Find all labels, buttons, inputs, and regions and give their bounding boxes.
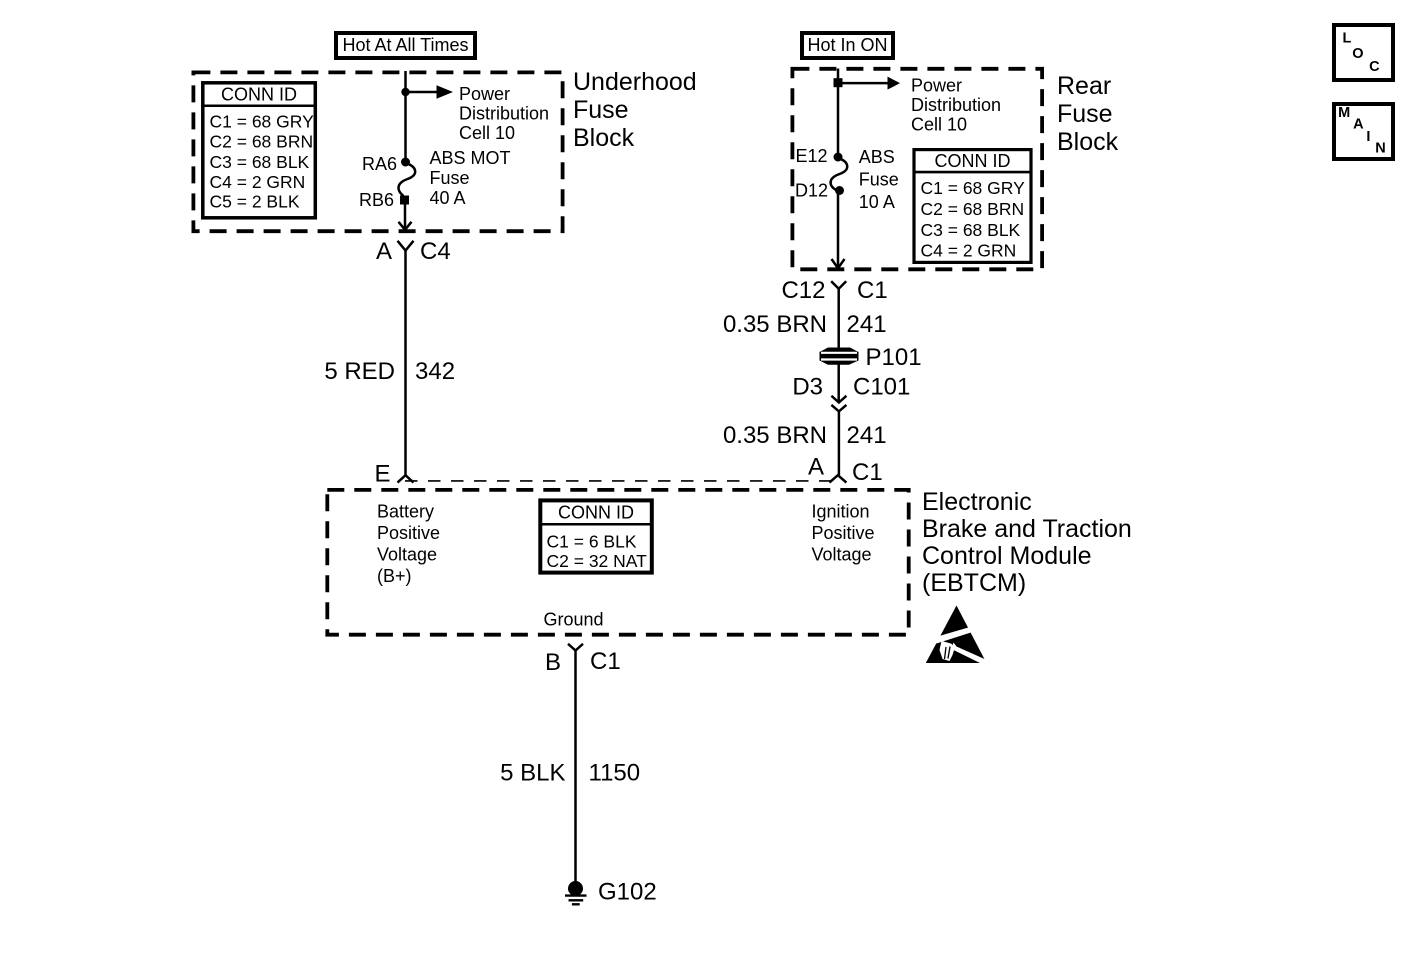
svg-text:RB6: RB6 bbox=[359, 190, 394, 210]
svg-text:Battery: Battery bbox=[377, 502, 434, 522]
svg-text:C12: C12 bbox=[781, 277, 825, 304]
svg-text:CONN ID: CONN ID bbox=[221, 85, 297, 105]
svg-text:L: L bbox=[1343, 31, 1352, 47]
svg-text:C4 = 2 GRN: C4 = 2 GRN bbox=[210, 172, 306, 192]
svg-text:Power: Power bbox=[911, 76, 962, 96]
svg-text:Cell 10: Cell 10 bbox=[911, 115, 967, 135]
svg-text:C1 = 68 GRY: C1 = 68 GRY bbox=[210, 112, 315, 132]
svg-text:0.35 BRN: 0.35 BRN bbox=[723, 422, 827, 449]
svg-text:D12: D12 bbox=[795, 180, 828, 200]
svg-text:C2 = 68 BRN: C2 = 68 BRN bbox=[921, 199, 1025, 219]
svg-text:C3 = 68 BLK: C3 = 68 BLK bbox=[921, 220, 1021, 240]
svg-text:C1 = 6 BLK: C1 = 6 BLK bbox=[547, 532, 637, 552]
svg-text:(B+): (B+) bbox=[377, 566, 412, 586]
svg-text:C2 = 32 NAT: C2 = 32 NAT bbox=[547, 551, 648, 571]
svg-text:A: A bbox=[808, 454, 824, 481]
svg-text:Distribution: Distribution bbox=[911, 95, 1001, 115]
svg-text:Cell 10: Cell 10 bbox=[459, 123, 515, 143]
svg-text:M: M bbox=[1338, 105, 1350, 121]
svg-text:Voltage: Voltage bbox=[812, 545, 872, 565]
svg-text:Positive: Positive bbox=[377, 523, 440, 543]
svg-text:342: 342 bbox=[415, 358, 455, 385]
svg-text:Power: Power bbox=[459, 84, 510, 104]
svg-text:ABS MOT: ABS MOT bbox=[430, 148, 511, 168]
svg-text:C3 = 68 BLK: C3 = 68 BLK bbox=[210, 152, 310, 172]
svg-text:CONN ID: CONN ID bbox=[935, 151, 1011, 171]
svg-text:241: 241 bbox=[847, 422, 887, 449]
svg-text:Block: Block bbox=[573, 124, 635, 152]
svg-text:O: O bbox=[1352, 46, 1363, 62]
svg-text:C1: C1 bbox=[590, 648, 621, 675]
svg-text:I: I bbox=[1366, 129, 1370, 145]
svg-text:Positive: Positive bbox=[812, 523, 875, 543]
svg-text:Electronic: Electronic bbox=[922, 488, 1032, 516]
svg-text:40 A: 40 A bbox=[430, 188, 466, 208]
svg-text:E12: E12 bbox=[795, 146, 827, 166]
svg-text:B: B bbox=[545, 649, 561, 676]
svg-text:N: N bbox=[1375, 141, 1385, 157]
svg-text:Hot In ON: Hot In ON bbox=[807, 35, 887, 55]
svg-text:Ignition: Ignition bbox=[812, 502, 870, 522]
svg-text:Block: Block bbox=[1057, 128, 1119, 156]
svg-text:C1: C1 bbox=[857, 277, 888, 304]
svg-text:C: C bbox=[1369, 59, 1380, 75]
svg-text:D3: D3 bbox=[792, 374, 823, 401]
svg-text:C101: C101 bbox=[853, 374, 910, 401]
svg-text:Underhood: Underhood bbox=[573, 68, 697, 96]
svg-text:10 A: 10 A bbox=[859, 192, 895, 212]
svg-text:(EBTCM): (EBTCM) bbox=[922, 569, 1026, 597]
svg-text:Ground: Ground bbox=[544, 610, 604, 630]
svg-text:C1: C1 bbox=[852, 459, 883, 486]
svg-text:Distribution: Distribution bbox=[459, 104, 549, 124]
svg-text:RA6: RA6 bbox=[362, 154, 397, 174]
svg-text:P101: P101 bbox=[866, 344, 922, 371]
svg-text:Fuse: Fuse bbox=[1057, 100, 1113, 128]
svg-text:241: 241 bbox=[847, 311, 887, 338]
svg-text:5 BLK: 5 BLK bbox=[500, 760, 565, 787]
svg-text:5 RED: 5 RED bbox=[324, 358, 395, 385]
svg-text:ABS: ABS bbox=[859, 147, 895, 167]
svg-text:Brake and Traction: Brake and Traction bbox=[922, 515, 1132, 543]
svg-text:C2 = 68 BRN: C2 = 68 BRN bbox=[210, 132, 314, 152]
svg-text:C4 = 2 GRN: C4 = 2 GRN bbox=[921, 241, 1017, 261]
svg-text:A: A bbox=[376, 238, 392, 265]
svg-text:Rear: Rear bbox=[1057, 72, 1111, 100]
svg-text:Voltage: Voltage bbox=[377, 545, 437, 565]
svg-text:0.35 BRN: 0.35 BRN bbox=[723, 311, 827, 338]
svg-text:CONN ID: CONN ID bbox=[558, 503, 634, 523]
svg-text:C4: C4 bbox=[420, 238, 451, 265]
svg-text:Fuse: Fuse bbox=[430, 168, 470, 188]
svg-text:G102: G102 bbox=[598, 879, 657, 906]
svg-text:1150: 1150 bbox=[589, 760, 641, 787]
svg-text:Fuse: Fuse bbox=[573, 96, 629, 124]
svg-text:C1 = 68 GRY: C1 = 68 GRY bbox=[921, 178, 1026, 198]
svg-text:E: E bbox=[374, 461, 390, 488]
svg-text:Hot At All Times: Hot At All Times bbox=[342, 35, 468, 55]
svg-text:C5 = 2 BLK: C5 = 2 BLK bbox=[210, 191, 300, 211]
svg-text:Fuse: Fuse bbox=[859, 170, 899, 190]
svg-text:Control Module: Control Module bbox=[922, 542, 1092, 570]
svg-text:A: A bbox=[1353, 117, 1364, 133]
